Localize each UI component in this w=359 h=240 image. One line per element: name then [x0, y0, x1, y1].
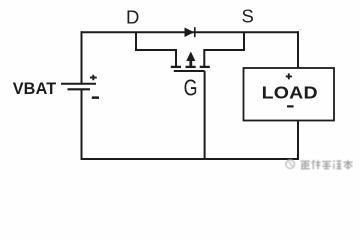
svg-text:D: D — [126, 6, 139, 27]
svg-text:LOAD: LOAD — [262, 83, 318, 103]
svg-text:VBAT: VBAT — [13, 80, 57, 98]
svg-text:S: S — [242, 5, 254, 26]
svg-text:G: G — [184, 75, 198, 101]
